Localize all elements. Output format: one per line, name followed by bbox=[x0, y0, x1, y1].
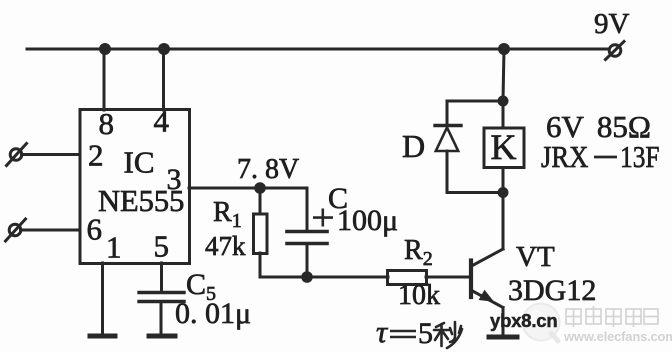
svg-text:7. 8V: 7. 8V bbox=[237, 154, 299, 185]
svg-text:0. 01μ: 0. 01μ bbox=[175, 297, 251, 330]
svg-text:100μ: 100μ bbox=[337, 204, 398, 237]
svg-text:3DG12: 3DG12 bbox=[508, 274, 596, 307]
svg-text:VT: VT bbox=[516, 241, 555, 273]
node relay bottom bbox=[498, 187, 509, 198]
wire node to C top bbox=[260, 188, 307, 230]
wire pin1 down bbox=[101, 263, 104, 335]
node 7.8V junction bbox=[254, 182, 266, 194]
ground emitter bbox=[489, 335, 517, 340]
wire pin5 down bbox=[160, 263, 163, 291]
svg-text:9V: 9V bbox=[594, 8, 630, 40]
node junction C bottom bbox=[301, 271, 313, 283]
label equals sign bbox=[390, 331, 416, 337]
watermark elecfans glyphs bbox=[566, 306, 658, 327]
wire C5 to ground bbox=[160, 303, 163, 335]
svg-text:5: 5 bbox=[418, 317, 433, 350]
svg-text:6: 6 bbox=[87, 212, 103, 247]
wire R2 to base bbox=[426, 276, 469, 279]
wire bottom horizontal R1 to R2 bbox=[260, 276, 388, 279]
terminal input pin2 bbox=[7, 144, 27, 166]
svg-text:R1: R1 bbox=[213, 197, 242, 232]
resistor R1 bbox=[254, 214, 268, 254]
wire node to R1 bbox=[259, 188, 262, 214]
capacitor C5 bbox=[139, 293, 184, 302]
wire collector up bbox=[502, 193, 505, 250]
transistor Q1 VT base bar bbox=[469, 261, 473, 298]
wire D down from top bbox=[446, 101, 449, 124]
wire terminal to pin2 bbox=[22, 153, 81, 156]
wire D to bottom bbox=[446, 151, 449, 193]
wire R1 bottom bbox=[259, 253, 262, 277]
wire relay top to D branch bbox=[447, 100, 503, 103]
svg-text:8: 8 bbox=[99, 106, 115, 141]
svg-text:5: 5 bbox=[154, 229, 170, 264]
svg-text:ybx8.cn: ybx8.cn bbox=[490, 310, 558, 331]
wire +9V power rail bbox=[27, 48, 609, 51]
transistor emitter lead bbox=[473, 290, 504, 308]
svg-text:6V85Ω: 6V85Ω bbox=[546, 109, 651, 144]
wire D bottom to relay node bbox=[447, 191, 503, 194]
node junction relay rail bbox=[498, 43, 510, 55]
svg-text:2: 2 bbox=[88, 138, 104, 173]
svg-text:D: D bbox=[402, 128, 425, 164]
svg-text:τ: τ bbox=[376, 314, 389, 349]
svg-text:R2: R2 bbox=[404, 235, 433, 270]
svg-text:IC: IC bbox=[124, 145, 155, 180]
wire C bottom bbox=[306, 245, 309, 277]
wire emitter down bbox=[502, 308, 505, 337]
op-amp U1 IC NE555 box bbox=[80, 110, 190, 264]
svg-text:www.elecfans.com: www.elecfans.com bbox=[563, 329, 672, 344]
node junction pin4 rail bbox=[158, 43, 170, 55]
wire pin8 to rail bbox=[103, 49, 106, 110]
capacitor C 100u bbox=[287, 232, 327, 244]
resistor R2 bbox=[388, 271, 427, 285]
svg-text:10k: 10k bbox=[398, 280, 440, 311]
wire relay bottom lead bbox=[502, 168, 505, 193]
svg-text:13F: 13F bbox=[620, 141, 660, 175]
terminal +9V input bbox=[606, 42, 625, 60]
wire pin3 output bbox=[189, 187, 260, 190]
label JRX dash bbox=[594, 156, 617, 159]
ground pin1 bbox=[90, 334, 115, 339]
wire pin4 to rail bbox=[162, 49, 165, 110]
svg-text:1: 1 bbox=[106, 230, 122, 265]
transistor collector lead bbox=[473, 249, 504, 266]
ground C5 bbox=[149, 334, 175, 339]
relay K coil box bbox=[484, 128, 524, 168]
svg-text:4: 4 bbox=[154, 104, 170, 139]
node junction pin8 rail bbox=[99, 43, 111, 55]
wire rail to relay node bbox=[503, 49, 504, 101]
svg-text:47k: 47k bbox=[205, 231, 246, 261]
svg-text:NE555: NE555 bbox=[98, 184, 184, 218]
node relay top bbox=[498, 96, 509, 107]
terminal input pin6 bbox=[6, 219, 26, 241]
watermark circle icon bbox=[523, 304, 560, 342]
wire relay top lead bbox=[502, 101, 505, 128]
svg-text:JRX: JRX bbox=[541, 140, 589, 174]
svg-text:K: K bbox=[491, 127, 517, 167]
label plus C bbox=[313, 209, 333, 227]
diode D bbox=[435, 126, 461, 152]
label seconds glyph bbox=[434, 322, 462, 348]
wire terminal to pin6 bbox=[21, 229, 81, 232]
